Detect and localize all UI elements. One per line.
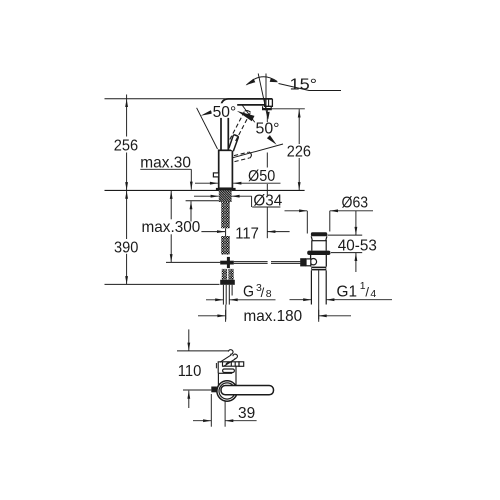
svg-text:G: G	[243, 283, 254, 300]
top view reference line upper	[177, 350, 229, 352]
hose tails G3/8	[223, 285, 232, 305]
dashed lever open position	[234, 152, 249, 155]
svg-text:/: /	[365, 285, 369, 300]
arrow upper-right 50	[237, 111, 255, 121]
drain centerline	[318, 270, 320, 319]
dimension O34	[194, 195, 280, 207]
svg-text:390: 390	[114, 239, 138, 256]
dashed lever up position	[230, 111, 245, 140]
drain tail tube G1 1/4	[311, 270, 326, 304]
dimension 226	[271, 109, 305, 191]
dimension max.30	[140, 169, 192, 221]
dimension max.300	[170, 191, 173, 263]
arrow upper-left 50	[201, 110, 213, 116]
faucet spout arm	[221, 99, 272, 150]
mounting nut hatched	[219, 190, 232, 202]
dashed lever caps	[245, 111, 251, 113]
pull rod to drain	[234, 262, 301, 264]
15 deg arc	[247, 77, 278, 85]
dimension 256	[125, 95, 128, 191]
vertical reference at spout end	[265, 74, 267, 109]
svg-text:226: 226	[287, 144, 311, 161]
svg-text:max.30: max.30	[140, 154, 191, 171]
svg-text:max.180: max.180	[244, 308, 303, 325]
15 deg arc arrowheads	[246, 79, 256, 86]
spout end cap	[265, 99, 273, 106]
dimension G1 1/4	[290, 298, 393, 301]
rod coupling	[227, 257, 230, 268]
svg-text:4: 4	[370, 288, 376, 300]
top view reference line lower	[183, 389, 211, 391]
body left tab	[213, 173, 218, 177]
bottom assembly reference line	[105, 283, 220, 285]
lever handle (solid position)	[229, 135, 239, 151]
svg-text:G1: G1	[337, 283, 358, 300]
drain neck taper	[311, 236, 327, 250]
dashed lever positions	[230, 111, 251, 162]
swing line left (50)	[197, 108, 218, 149]
arrow lower 50	[267, 135, 277, 145]
svg-text:40-53: 40-53	[338, 237, 377, 254]
base plate	[216, 188, 236, 191]
dimension 117	[201, 211, 289, 238]
angle texts with white backing	[212, 76, 317, 137]
svg-text:max.300: max.300	[142, 219, 201, 236]
mounting plane line	[105, 189, 305, 191]
svg-text:Ø50: Ø50	[248, 168, 275, 185]
lever swing annotation lines	[197, 74, 341, 158]
dimension O63	[285, 209, 374, 233]
svg-text:Ø63: Ø63	[342, 194, 369, 211]
threaded shank upper	[221, 202, 230, 228]
svg-text:15°: 15°	[290, 76, 318, 93]
dimension G 3/8	[206, 298, 276, 301]
faucet body	[219, 150, 233, 188]
cut spout (top view) with break	[220, 350, 238, 367]
flexible hoses	[222, 269, 227, 280]
top reference line (spout level)	[105, 98, 241, 100]
faucet centerline extension	[225, 305, 227, 320]
svg-text:110: 110	[178, 363, 202, 380]
svg-text:117: 117	[235, 225, 259, 242]
drain tailpiece collar	[311, 267, 326, 271]
counter underside line	[186, 200, 219, 202]
svg-text:50°: 50°	[256, 121, 280, 138]
hose nuts	[220, 280, 235, 285]
dimension 40-53	[328, 211, 363, 272]
dimension max.180	[198, 310, 351, 322]
thick angular arrows	[201, 78, 279, 145]
shank break center line	[225, 228, 227, 236]
dimension O50	[195, 182, 281, 185]
extension line from aerator (spout projection)	[266, 110, 268, 211]
hose end reference line	[166, 261, 220, 263]
dimension 390	[125, 191, 128, 285]
escutcheon circles (top view)	[217, 381, 237, 401]
drain lower body	[311, 255, 327, 267]
15 deg tilted line through spout end	[258, 74, 268, 119]
svg-text:50°: 50°	[213, 104, 237, 121]
swing line right upper	[242, 105, 262, 132]
svg-text:/: /	[261, 285, 265, 300]
drain upper body	[311, 241, 313, 251]
svg-text:39: 39	[238, 405, 255, 422]
svg-text:8: 8	[266, 288, 272, 300]
rod knob	[300, 258, 306, 266]
lever (top view)	[221, 386, 274, 395]
rod ball joint	[310, 259, 316, 265]
threaded shank lower	[221, 236, 230, 255]
dimension 39	[193, 394, 257, 427]
valve body (top view)	[216, 362, 243, 386]
swing line lower right	[233, 144, 283, 158]
dimension 110	[187, 329, 190, 408]
arrow on 15 deg line	[267, 112, 270, 120]
drain plug cap	[311, 232, 327, 236]
svg-text:Ø34: Ø34	[253, 193, 282, 210]
pull rod knob (top view)	[211, 387, 217, 393]
drain flange ring	[307, 251, 330, 255]
15 deg leader	[279, 84, 342, 91]
aerator	[263, 106, 272, 109]
svg-text:256: 256	[114, 137, 138, 154]
